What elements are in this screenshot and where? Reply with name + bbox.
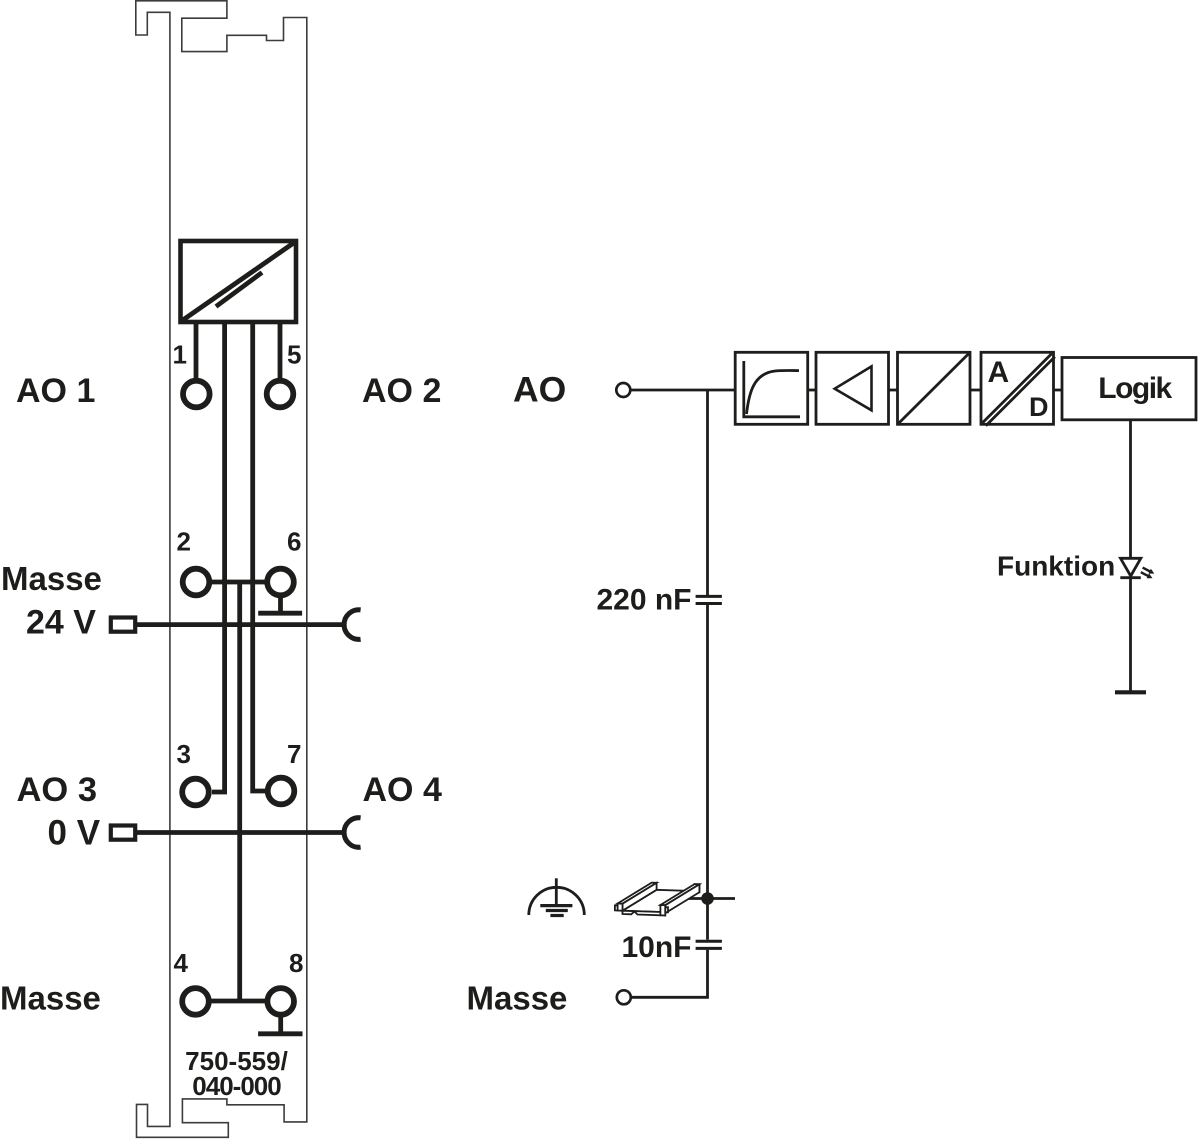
svg-text:Masse: Masse xyxy=(467,980,568,1017)
0V feed square terminal xyxy=(111,826,135,840)
svg-text:1: 1 xyxy=(173,340,187,370)
amplifier triangle xyxy=(835,366,872,410)
functional earth symbol xyxy=(529,887,585,915)
wire pin2 to terminal 3 xyxy=(212,322,225,792)
svg-text:6: 6 xyxy=(287,527,301,557)
svg-text:4: 4 xyxy=(174,948,189,978)
filter curve xyxy=(747,370,800,414)
Masse terminal circle xyxy=(617,990,631,1004)
junction dot xyxy=(701,892,714,905)
wire between box3 box4 xyxy=(970,389,981,392)
svg-text:0 V: 0 V xyxy=(48,814,101,853)
svg-text:3: 3 xyxy=(177,739,191,769)
power jumper contact under terminal 6 xyxy=(278,596,283,611)
24V rail C contact xyxy=(344,610,361,640)
converter diagonal xyxy=(899,354,969,424)
svg-text:2: 2 xyxy=(177,527,191,557)
AD double diagonal xyxy=(983,354,1052,423)
svg-text:7: 7 xyxy=(287,739,301,769)
svg-text:Logik: Logik xyxy=(1098,372,1172,405)
wire center bus down xyxy=(237,582,242,1001)
filter box xyxy=(735,352,808,424)
Logik box xyxy=(1062,358,1196,420)
svg-text:AO 3: AO 3 xyxy=(17,771,98,809)
svg-text:D: D xyxy=(1029,392,1049,422)
wire stub right of junction dot xyxy=(680,897,735,900)
svg-text:AO 2: AO 2 xyxy=(362,372,441,410)
DC/DC converter U1 xyxy=(181,241,297,322)
svg-text:5: 5 xyxy=(287,340,301,370)
AO input terminal circle xyxy=(616,383,630,397)
terminal circle 4 xyxy=(182,988,209,1015)
0V rail wire xyxy=(135,830,343,835)
LED ground bar xyxy=(1115,690,1146,694)
svg-text:Funktion: Funktion xyxy=(997,551,1115,582)
pin 1 lead xyxy=(194,322,199,379)
24V rail wire xyxy=(135,622,343,627)
terminal circle 2 xyxy=(183,569,210,596)
terminal circle 5 xyxy=(267,381,294,408)
capacitor 220nF xyxy=(696,595,722,598)
wire between box4 box5 xyxy=(1054,389,1063,392)
svg-text:AO 4: AO 4 xyxy=(363,771,442,809)
svg-text:Masse: Masse xyxy=(0,980,101,1017)
module housing outline xyxy=(136,1,307,1138)
svg-text:220 nF: 220 nF xyxy=(596,584,691,617)
LED wire from Logik xyxy=(1129,420,1132,559)
svg-text:AO: AO xyxy=(513,370,566,410)
24V feed square terminal xyxy=(111,618,135,632)
0V rail C contact xyxy=(344,818,361,848)
wire pin3 to terminal 7 xyxy=(253,322,265,791)
converter box xyxy=(898,352,971,424)
terminal circle 7 xyxy=(268,778,295,805)
svg-text:24 V: 24 V xyxy=(26,604,96,642)
terminal circle 6 xyxy=(267,569,294,596)
wire cap to Masse corner xyxy=(631,950,708,998)
filter axes xyxy=(744,361,800,417)
wire between box2 box3 xyxy=(889,389,898,392)
power jumper contact under terminal 8 xyxy=(278,1016,283,1032)
LED D1 xyxy=(1121,558,1141,576)
terminal circle 3 xyxy=(182,779,209,806)
DIN rail symbol xyxy=(615,883,700,916)
svg-text:A: A xyxy=(988,356,1010,389)
wire terminal2 to terminal6 xyxy=(210,580,266,585)
capacitor 10nF xyxy=(696,940,722,943)
wire AO to box1 xyxy=(631,389,736,392)
amplifier box xyxy=(816,352,889,424)
U1 parallel stroke xyxy=(216,273,262,307)
LED light arrows xyxy=(1141,568,1155,579)
svg-text:040-000: 040-000 xyxy=(192,1071,281,1101)
wire between box1 box2 xyxy=(808,389,816,392)
AD box xyxy=(981,352,1054,424)
pin 5 lead xyxy=(278,322,283,379)
svg-text:AO 1: AO 1 xyxy=(16,372,95,410)
wire cap to junction dot xyxy=(706,605,709,940)
wire AO junction down xyxy=(706,390,709,595)
LED wire down xyxy=(1129,578,1132,693)
svg-text:Masse: Masse xyxy=(1,560,102,597)
U1 diagonal xyxy=(182,242,296,321)
terminal circle 1 xyxy=(183,381,210,408)
svg-text:10nF: 10nF xyxy=(621,931,691,964)
terminal circle 8 xyxy=(267,988,294,1015)
svg-text:8: 8 xyxy=(289,948,303,978)
wire terminal4 to terminal8 xyxy=(209,999,266,1004)
